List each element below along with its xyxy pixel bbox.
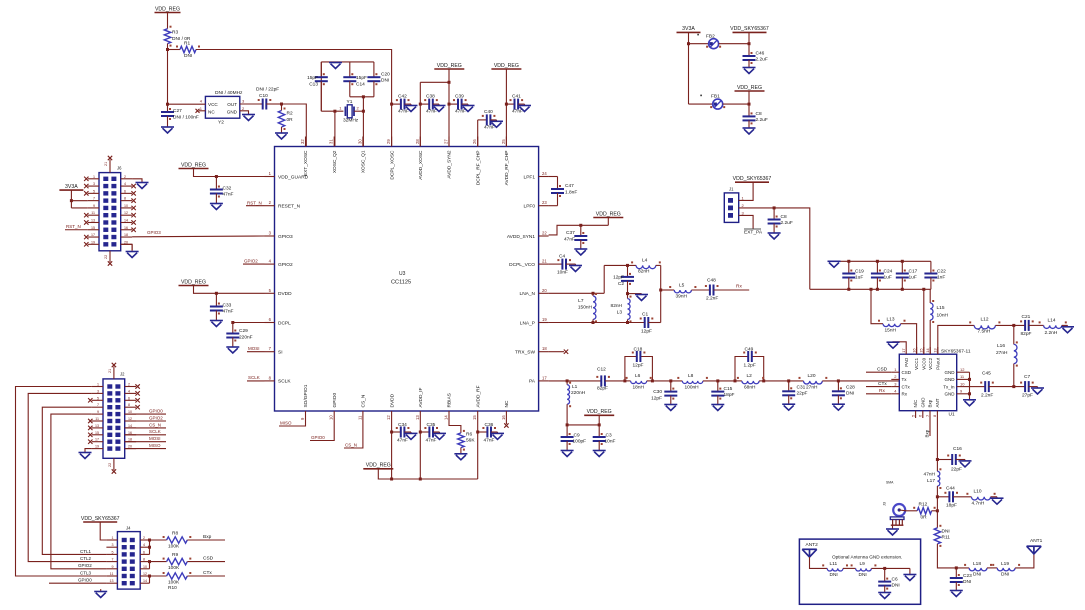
svg-text:13: 13	[110, 579, 114, 583]
svg-text:12: 12	[128, 417, 132, 421]
svg-text:C12: C12	[597, 367, 606, 373]
svg-text:11: 11	[91, 211, 95, 215]
svg-text:GPIO2: GPIO2	[244, 258, 258, 263]
wire J1 pin1 to VDD_SKY65367	[739, 182, 753, 200]
connector J3 SMA	[883, 481, 907, 526]
capacitor C6	[878, 568, 900, 589]
connector J4	[106, 526, 149, 590]
svg-text:18pF: 18pF	[724, 392, 735, 398]
svg-text:15: 15	[91, 226, 95, 230]
svg-text:C27: C27	[173, 108, 182, 114]
capacitor C1	[640, 312, 654, 335]
speck near FB2	[697, 34, 699, 36]
svg-text:14: 14	[444, 415, 449, 420]
svg-text:C44: C44	[946, 486, 955, 492]
ground (C41)	[518, 104, 531, 111]
resistor R8	[150, 531, 192, 550]
svg-text:0R: 0R	[921, 515, 928, 521]
svg-text:EXT_XOSC: EXT_XOSC	[303, 150, 309, 176]
svg-text:100K: 100K	[168, 580, 180, 586]
svg-text:L19: L19	[1001, 561, 1009, 567]
capacitor C32	[210, 177, 234, 198]
capacitor C22	[924, 261, 946, 289]
svg-text:C10: C10	[259, 93, 268, 99]
power flag VDD_SKY65367 (J1)	[733, 176, 772, 182]
capacitor C42	[392, 94, 410, 115]
ground (C4)	[566, 264, 582, 271]
capacitor C13	[307, 62, 328, 111]
svg-text:2.2nF: 2.2nF	[981, 393, 993, 399]
svg-text:9: 9	[97, 410, 99, 414]
svg-text:C41: C41	[512, 94, 521, 100]
wire Y2 OUT to C10	[240, 103, 261, 105]
svg-text:10nH: 10nH	[937, 313, 949, 319]
svg-text:AVDD_SYN2: AVDD_SYN2	[447, 150, 453, 179]
capacitor C9	[561, 425, 587, 445]
svg-text:10nF: 10nF	[557, 270, 568, 276]
svg-text:47nF: 47nF	[455, 109, 466, 115]
svg-text:82pF: 82pF	[597, 386, 608, 392]
VDD_REG bottom rail	[378, 469, 477, 481]
svg-text:7.5nH: 7.5nH	[978, 329, 991, 335]
wire pin13 AVDD_IF down	[419, 421, 422, 479]
svg-text:C4: C4	[559, 254, 565, 260]
net label CS_N / wire pin11	[344, 421, 363, 448]
antenna ANT1	[1027, 538, 1043, 554]
svg-text:12: 12	[124, 211, 128, 215]
svg-text:C46: C46	[756, 51, 765, 57]
svg-text:12: 12	[143, 572, 147, 576]
connector J6	[88, 156, 132, 266]
svg-text:MISO: MISO	[149, 443, 161, 448]
svg-text:DNI: DNI	[963, 579, 971, 585]
svg-text:R6: R6	[466, 432, 472, 438]
resistor R10	[150, 572, 192, 591]
inductor L9	[851, 561, 877, 578]
svg-text:8: 8	[128, 403, 130, 407]
svg-text:32: 32	[300, 139, 305, 144]
svg-text:C8: C8	[756, 111, 762, 117]
oscillator Y2	[200, 90, 245, 126]
svg-text:82pF: 82pF	[1021, 331, 1032, 337]
svg-text:C36: C36	[485, 422, 494, 428]
wire PAout pin13 to L12	[938, 325, 974, 354]
svg-text:VDD_SKY65367: VDD_SKY65367	[730, 26, 769, 32]
svg-text:32MHz: 32MHz	[343, 118, 359, 124]
svg-text:19: 19	[91, 240, 95, 244]
capacitor C29	[226, 323, 252, 342]
svg-text:C39: C39	[455, 94, 464, 100]
svg-text:18: 18	[542, 346, 547, 351]
svg-text:C31: C31	[797, 385, 806, 391]
wire L18 to L19	[987, 567, 997, 569]
svg-text:CS_N: CS_N	[149, 422, 161, 427]
capacitor C19	[842, 261, 864, 289]
inductor L14	[1039, 318, 1067, 337]
svg-text:VDD_REG: VDD_REG	[181, 279, 206, 285]
svg-text:VDD_REG: VDD_REG	[437, 63, 462, 69]
power flag VDD_REG (PA)	[584, 409, 614, 425]
ground (C2/L3 node)	[628, 294, 649, 301]
net label MISO / wire pin9	[279, 420, 306, 426]
ground (crystal cap rail)	[329, 62, 342, 69]
capacitor C39	[449, 94, 467, 115]
svg-text:ANT2: ANT2	[806, 542, 819, 548]
capacitor C38	[420, 94, 438, 115]
svg-text:100nH: 100nH	[685, 385, 700, 391]
svg-text:100K: 100K	[168, 544, 180, 550]
svg-text:GPIO0: GPIO0	[332, 393, 338, 408]
net label Rx / wire	[714, 284, 750, 291]
svg-text:2.2nH: 2.2nH	[1045, 330, 1058, 336]
J4 bracket pins 2/4/6	[148, 539, 151, 555]
resistor R9	[150, 552, 192, 571]
svg-text:VDD_SKY65367: VDD_SKY65367	[733, 176, 772, 182]
svg-text:Bxp: Bxp	[925, 429, 930, 437]
tank2 risers/rail	[734, 357, 766, 383]
svg-text:L14: L14	[1048, 318, 1056, 324]
svg-text:27pF: 27pF	[1022, 393, 1033, 399]
svg-text:GPIO2: GPIO2	[78, 563, 92, 568]
net label CTL1 / wire J4 pin5	[68, 549, 106, 555]
wire C47 to pin23 LPF0	[549, 193, 558, 206]
svg-text:220nH: 220nH	[571, 390, 586, 396]
wire L5 to C48	[691, 289, 710, 291]
svg-text:J4: J4	[126, 526, 131, 531]
svg-text:LPF1: LPF1	[524, 174, 536, 180]
svg-text:21: 21	[104, 162, 108, 166]
svg-text:C17: C17	[909, 269, 918, 275]
svg-text:L9: L9	[860, 561, 866, 567]
wire J3 to R12	[905, 510, 917, 512]
svg-text:DVDD: DVDD	[389, 393, 395, 407]
svg-text:EXT_PA: EXT_PA	[744, 230, 763, 236]
net label GPIO0 / wire J4 pin13	[49, 578, 106, 584]
ground (C39)	[462, 104, 475, 111]
ground (U1 GND bus)	[963, 400, 976, 406]
svg-text:20: 20	[128, 445, 132, 449]
ground (C16)	[956, 460, 972, 467]
svg-text:DNI: DNI	[859, 572, 867, 578]
capacitor C23	[950, 568, 972, 586]
svg-text:DCPL: DCPL	[278, 320, 291, 326]
wire L20 to C28 node	[822, 379, 899, 382]
svg-text:Rx: Rx	[736, 284, 742, 290]
svg-text:1.2pF: 1.2pF	[744, 363, 756, 369]
svg-text:GPIO0: GPIO0	[149, 409, 163, 414]
svg-text:7: 7	[112, 558, 114, 562]
svg-text:CC1125: CC1125	[391, 280, 411, 286]
svg-text:5: 5	[93, 189, 95, 193]
svg-text:VDD_SKY65367: VDD_SKY65367	[81, 516, 120, 522]
svg-text:L12: L12	[981, 317, 989, 323]
svg-text:1: 1	[97, 383, 99, 387]
ground (C33)	[210, 311, 223, 327]
wire node to pin31 XOSC_Q2	[334, 111, 336, 146]
capacitor C44	[944, 486, 958, 509]
svg-text:21: 21	[108, 369, 112, 373]
capacitor C28	[832, 381, 855, 399]
svg-text:Optional Antenna GND extension: Optional Antenna GND extension.	[832, 554, 902, 559]
svg-text:47nF: 47nF	[223, 309, 234, 315]
wire GPIO3 J6 to pin3	[132, 230, 264, 237]
svg-text:47nF: 47nF	[426, 438, 437, 444]
ground (U1 PAD pin17)	[887, 342, 907, 348]
svg-text:L5: L5	[679, 283, 685, 289]
ground (top rail)	[828, 261, 841, 267]
svg-text:C13: C13	[309, 82, 318, 88]
svg-text:VCC1: VCC1	[914, 357, 919, 370]
svg-text:XOSC_Q1: XOSC_Q1	[361, 150, 367, 173]
svg-text:SKY65367-11: SKY65367-11	[941, 348, 971, 354]
svg-text:L4: L4	[642, 258, 648, 264]
wire R2 node to pin32 EXT_XOSC	[282, 104, 307, 147]
capacitor C46	[743, 44, 768, 64]
ground (C37)	[574, 240, 587, 255]
ferrite bead FB1	[689, 94, 750, 110]
svg-text:L8: L8	[688, 373, 694, 379]
svg-text:7: 7	[97, 403, 99, 407]
svg-text:GPIO0: GPIO0	[78, 578, 92, 583]
ground (C27)	[161, 116, 174, 133]
svg-text:RST_N: RST_N	[66, 224, 81, 229]
net label RST_N / wire J6 pin15	[65, 224, 88, 230]
svg-text:14: 14	[143, 579, 147, 583]
svg-text:N/C: N/C	[913, 399, 918, 408]
ground (R2)	[275, 127, 288, 139]
svg-text:C22: C22	[937, 269, 946, 275]
wire pin25 AVDD_RF_CHP up	[505, 69, 508, 147]
svg-text:15: 15	[919, 348, 924, 353]
J4 bracket pins 8/10	[148, 560, 151, 569]
svg-text:CTL3: CTL3	[80, 570, 92, 575]
svg-text:3: 3	[93, 182, 95, 186]
speck near FB1	[700, 95, 702, 97]
svg-text:DNI / 22pF: DNI / 22pF	[256, 87, 279, 93]
svg-text:CSD: CSD	[877, 367, 888, 373]
svg-text:L7: L7	[578, 298, 584, 304]
svg-text:U3: U3	[399, 271, 406, 277]
power flag VDD_REG (AVDD_SYN1)	[593, 211, 623, 225]
svg-text:28: 28	[415, 139, 420, 144]
net label GPIO2 / wire J4 pin9	[77, 563, 106, 569]
wire 3V3A down	[687, 32, 690, 104]
svg-text:ANT: ANT	[935, 398, 940, 407]
svg-text:NC: NC	[208, 110, 215, 115]
svg-text:GPIO2: GPIO2	[149, 415, 163, 420]
svg-text:R3: R3	[172, 30, 178, 36]
svg-text:19: 19	[95, 445, 99, 449]
svg-text:LNA_P: LNA_P	[520, 320, 535, 326]
svg-text:DNI: DNI	[892, 583, 900, 589]
svg-text:12pF: 12pF	[641, 329, 652, 335]
power flag 3V3A (J6)	[59, 184, 83, 190]
power flag VDD_REG (top left)	[155, 6, 181, 12]
svg-text:GPIO2: GPIO2	[278, 262, 293, 268]
svg-text:2: 2	[128, 383, 130, 387]
inductor L3	[611, 294, 632, 323]
svg-text:6: 6	[124, 189, 126, 193]
svg-text:1: 1	[93, 175, 95, 179]
svg-text:PAD: PAD	[904, 357, 909, 367]
wire crystal row	[321, 110, 343, 113]
wire junction to Y2 VCC pin	[168, 103, 206, 105]
svg-text:47nF: 47nF	[223, 192, 234, 198]
svg-text:15pF: 15pF	[356, 75, 367, 81]
wire L8 to C15 node	[703, 379, 735, 382]
svg-text:1.8nF: 1.8nF	[565, 190, 577, 196]
svg-text:27: 27	[444, 139, 449, 144]
wire pin6 DCPL	[231, 321, 264, 324]
svg-text:DNI / 100nF: DNI / 100nF	[173, 115, 199, 121]
svg-text:C15: C15	[724, 386, 733, 392]
svg-text:100K: 100K	[168, 565, 180, 571]
svg-text:13: 13	[95, 424, 99, 428]
U1 GND bus	[968, 372, 971, 400]
ground (L14)	[1061, 325, 1074, 332]
svg-text:L11: L11	[830, 561, 838, 567]
svg-text:C9: C9	[574, 433, 580, 439]
wire VDD_REG to pin1	[194, 169, 265, 179]
svg-text:1nF: 1nF	[937, 275, 945, 281]
resistor R6	[458, 430, 476, 451]
svg-text:29: 29	[386, 139, 391, 144]
svg-text:17: 17	[901, 348, 906, 353]
svg-text:4: 4	[143, 543, 145, 547]
svg-text:PAout: PAout	[935, 357, 940, 370]
svg-text:SCLK: SCLK	[248, 375, 260, 380]
wire C44 to L10	[953, 496, 971, 498]
wire pin27 AVDD_SYN2 up	[448, 82, 451, 146]
inductor L10	[966, 489, 995, 507]
svg-text:2.2uF: 2.2uF	[756, 57, 768, 63]
ground (C8)	[743, 120, 756, 134]
svg-text:2: 2	[124, 175, 126, 179]
svg-text:VDD_REG: VDD_REG	[587, 409, 612, 415]
svg-text:12pF: 12pF	[613, 275, 624, 281]
svg-text:15: 15	[472, 415, 477, 420]
svg-text:C49: C49	[745, 347, 754, 353]
svg-text:AVDD_RF: AVDD_RF	[475, 385, 481, 407]
svg-text:RESET_N: RESET_N	[278, 204, 301, 210]
svg-text:82nH: 82nH	[611, 303, 623, 309]
svg-text:C48: C48	[707, 278, 716, 284]
capacitor C15	[711, 381, 734, 400]
capacitor C4	[557, 254, 571, 276]
svg-text:Tx: Tx	[902, 377, 908, 382]
wire L9 to C6 node	[871, 567, 910, 570]
svg-text:20: 20	[542, 288, 547, 293]
svg-text:14: 14	[925, 348, 930, 353]
svg-text:39nH: 39nH	[676, 294, 688, 300]
svg-text:15: 15	[95, 431, 99, 435]
ground (C32)	[210, 194, 223, 210]
svg-text:18nH: 18nH	[633, 385, 645, 391]
svg-text:C2: C2	[618, 281, 624, 287]
svg-text:Y1: Y1	[347, 99, 353, 105]
svg-text:16: 16	[501, 415, 506, 420]
svg-text:11: 11	[357, 415, 362, 420]
wire C14/C20 rail to Y1 right node	[362, 97, 365, 113]
svg-text:Bxp: Bxp	[928, 399, 933, 407]
power flag 3V3A (FB)	[677, 26, 701, 32]
net label MOSI / wire to pin7 SI	[247, 346, 265, 352]
svg-text:GND: GND	[945, 370, 956, 375]
svg-text:CSD: CSD	[203, 556, 214, 562]
svg-text:24: 24	[542, 171, 547, 176]
svg-text:14: 14	[124, 218, 128, 222]
svg-text:21: 21	[542, 259, 547, 264]
svg-text:0R: 0R	[287, 117, 294, 123]
svg-text:47nF: 47nF	[564, 237, 575, 243]
svg-text:GPIO3: GPIO3	[147, 230, 161, 235]
svg-text:3: 3	[112, 543, 114, 547]
svg-text:27nH: 27nH	[806, 385, 818, 391]
svg-text:68nH: 68nH	[744, 385, 756, 391]
ground (C31)	[782, 395, 795, 410]
svg-text:J6: J6	[117, 166, 122, 171]
svg-text:C16: C16	[953, 446, 962, 452]
svg-text:DCPL_VCO: DCPL_VCO	[509, 262, 535, 268]
svg-text:8: 8	[124, 197, 126, 201]
svg-text:Y2: Y2	[218, 120, 224, 126]
inductor L6	[625, 373, 653, 391]
svg-text:12: 12	[960, 367, 965, 372]
svg-text:C47: C47	[565, 183, 574, 189]
wire pin28 AVDD_XOSC up	[419, 82, 422, 146]
inductor L7	[578, 293, 597, 323]
inductor L15	[930, 289, 948, 354]
svg-text:DNI: DNI	[846, 391, 854, 397]
svg-text:C33: C33	[223, 303, 232, 309]
ground (C40)	[490, 120, 503, 127]
capacitor C40	[478, 109, 496, 131]
svg-text:C37: C37	[566, 230, 575, 236]
no-connects J2 right	[135, 384, 139, 409]
capacitor C7	[1020, 374, 1034, 399]
svg-text:9: 9	[93, 204, 95, 208]
svg-text:DNI: DNI	[973, 572, 981, 578]
wire C44 node	[936, 495, 950, 498]
svg-text:L10: L10	[974, 489, 982, 495]
capacitor C18	[632, 347, 646, 369]
svg-text:4: 4	[128, 389, 130, 393]
J4 bracket pins 12/14	[148, 575, 151, 584]
capacitor C49	[743, 347, 757, 369]
svg-text:26: 26	[472, 139, 477, 144]
ground (C34)	[404, 432, 417, 439]
wire tank1 to C30 node	[652, 379, 682, 382]
no-connect pin16 NC	[504, 421, 508, 428]
wire VDD_REG to R3	[167, 13, 169, 29]
svg-text:12: 12	[386, 415, 391, 420]
svg-text:C18: C18	[634, 347, 643, 353]
capacitor C34	[392, 422, 410, 444]
svg-text:22: 22	[108, 463, 112, 467]
svg-text:1: 1	[112, 536, 114, 540]
net label CTL3 / wire J4 pin11	[42, 570, 106, 576]
svg-text:10nF: 10nF	[605, 439, 616, 445]
wire L13 to VCC1 pin16	[901, 324, 917, 355]
svg-text:GND: GND	[945, 392, 956, 397]
svg-text:R2: R2	[287, 111, 293, 117]
svg-text:14: 14	[128, 424, 132, 428]
ground (C23)	[950, 582, 963, 597]
wire J2 pin3 to CTL2	[28, 393, 92, 561]
wire R12 to main node	[932, 497, 939, 528]
svg-text:L17: L17	[927, 478, 935, 484]
capacitor C48	[705, 278, 719, 302]
